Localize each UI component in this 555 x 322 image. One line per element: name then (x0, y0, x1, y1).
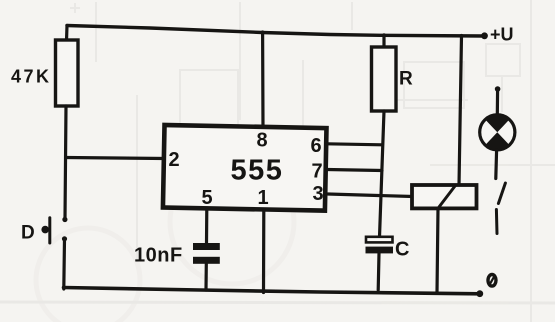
switch S1 blade (498, 183, 505, 204)
relay K1 diagonal (439, 186, 455, 207)
svg-text:6: 6 (311, 135, 322, 157)
svg-text:+U: +U (490, 25, 514, 45)
node: lower contact dot of D (62, 236, 67, 241)
wire: lamp bottom lead (494, 150, 498, 179)
node: 0 rail end dot (476, 290, 483, 297)
relay K1 (coil box) (412, 185, 477, 208)
op-amp/timer IC U1 555 (body) (163, 125, 327, 211)
svg-text:555: 555 (231, 155, 284, 187)
wire: pin 3 horizontal to relay K1 (328, 194, 413, 197)
wire: 47K bottom down to switch D gap (65, 106, 66, 219)
svg-text:1: 1 (258, 187, 269, 209)
resistor R (box) (372, 47, 397, 111)
node 0 (theta symbol at bottom right) (488, 275, 496, 287)
wire: 10nF bottom to 0 rail (204, 264, 208, 290)
top +U rail (67, 26, 484, 37)
wire: pin 8 vertical from rail to IC top (261, 32, 265, 127)
wire: from D lower contact to 0 rail (62, 239, 66, 289)
wire: left vertical from rail to resistor 47K (65, 26, 69, 42)
svg-text:3: 3 (313, 183, 324, 205)
pushbutton D actuator (48, 218, 51, 243)
wire: C bottom to 0 rail (377, 253, 381, 290)
svg-text:47K: 47K (11, 67, 52, 87)
wire: pin 5 vertical to 10nF (205, 208, 209, 244)
svg-text:D: D (21, 223, 35, 244)
wire: relay bottom to 0 rail (437, 209, 438, 294)
svg-text:2: 2 (169, 149, 180, 171)
svg-text:C: C (395, 239, 409, 261)
wire: pin 2 horizontal (66, 158, 165, 159)
wire: rail down to resistor R (382, 35, 385, 48)
capacitor C (plates) (366, 237, 393, 243)
wire: pin 6 horizontal to R leg (327, 144, 383, 145)
resistor 47K (box) (56, 40, 79, 106)
wire: pin 1 vertical to 0 rail (262, 210, 265, 293)
lamp H1 (circle with filled quadrants) (480, 115, 515, 150)
lamp H1 top lead dot (495, 86, 501, 92)
0V bottom rail (64, 288, 481, 294)
svg-text:5: 5 (202, 187, 213, 209)
wire: switch lower lead (495, 210, 499, 234)
wire: R bottom through 6/7 junctions to capacitor C (380, 111, 385, 237)
svg-text:R: R (399, 69, 413, 90)
node +U terminal dot (481, 32, 488, 39)
svg-text:7: 7 (312, 161, 323, 183)
capacitor 10nF (plates) (193, 243, 220, 250)
svg-text:10nF: 10nF (134, 245, 183, 267)
svg-text:8: 8 (257, 130, 268, 152)
wire: lamp top lead (496, 89, 500, 116)
wire: rail down to relay K1 top (459, 36, 462, 186)
node: upper contact dot of D (62, 217, 67, 222)
wire: pin 7 horizontal to R leg (327, 170, 382, 171)
